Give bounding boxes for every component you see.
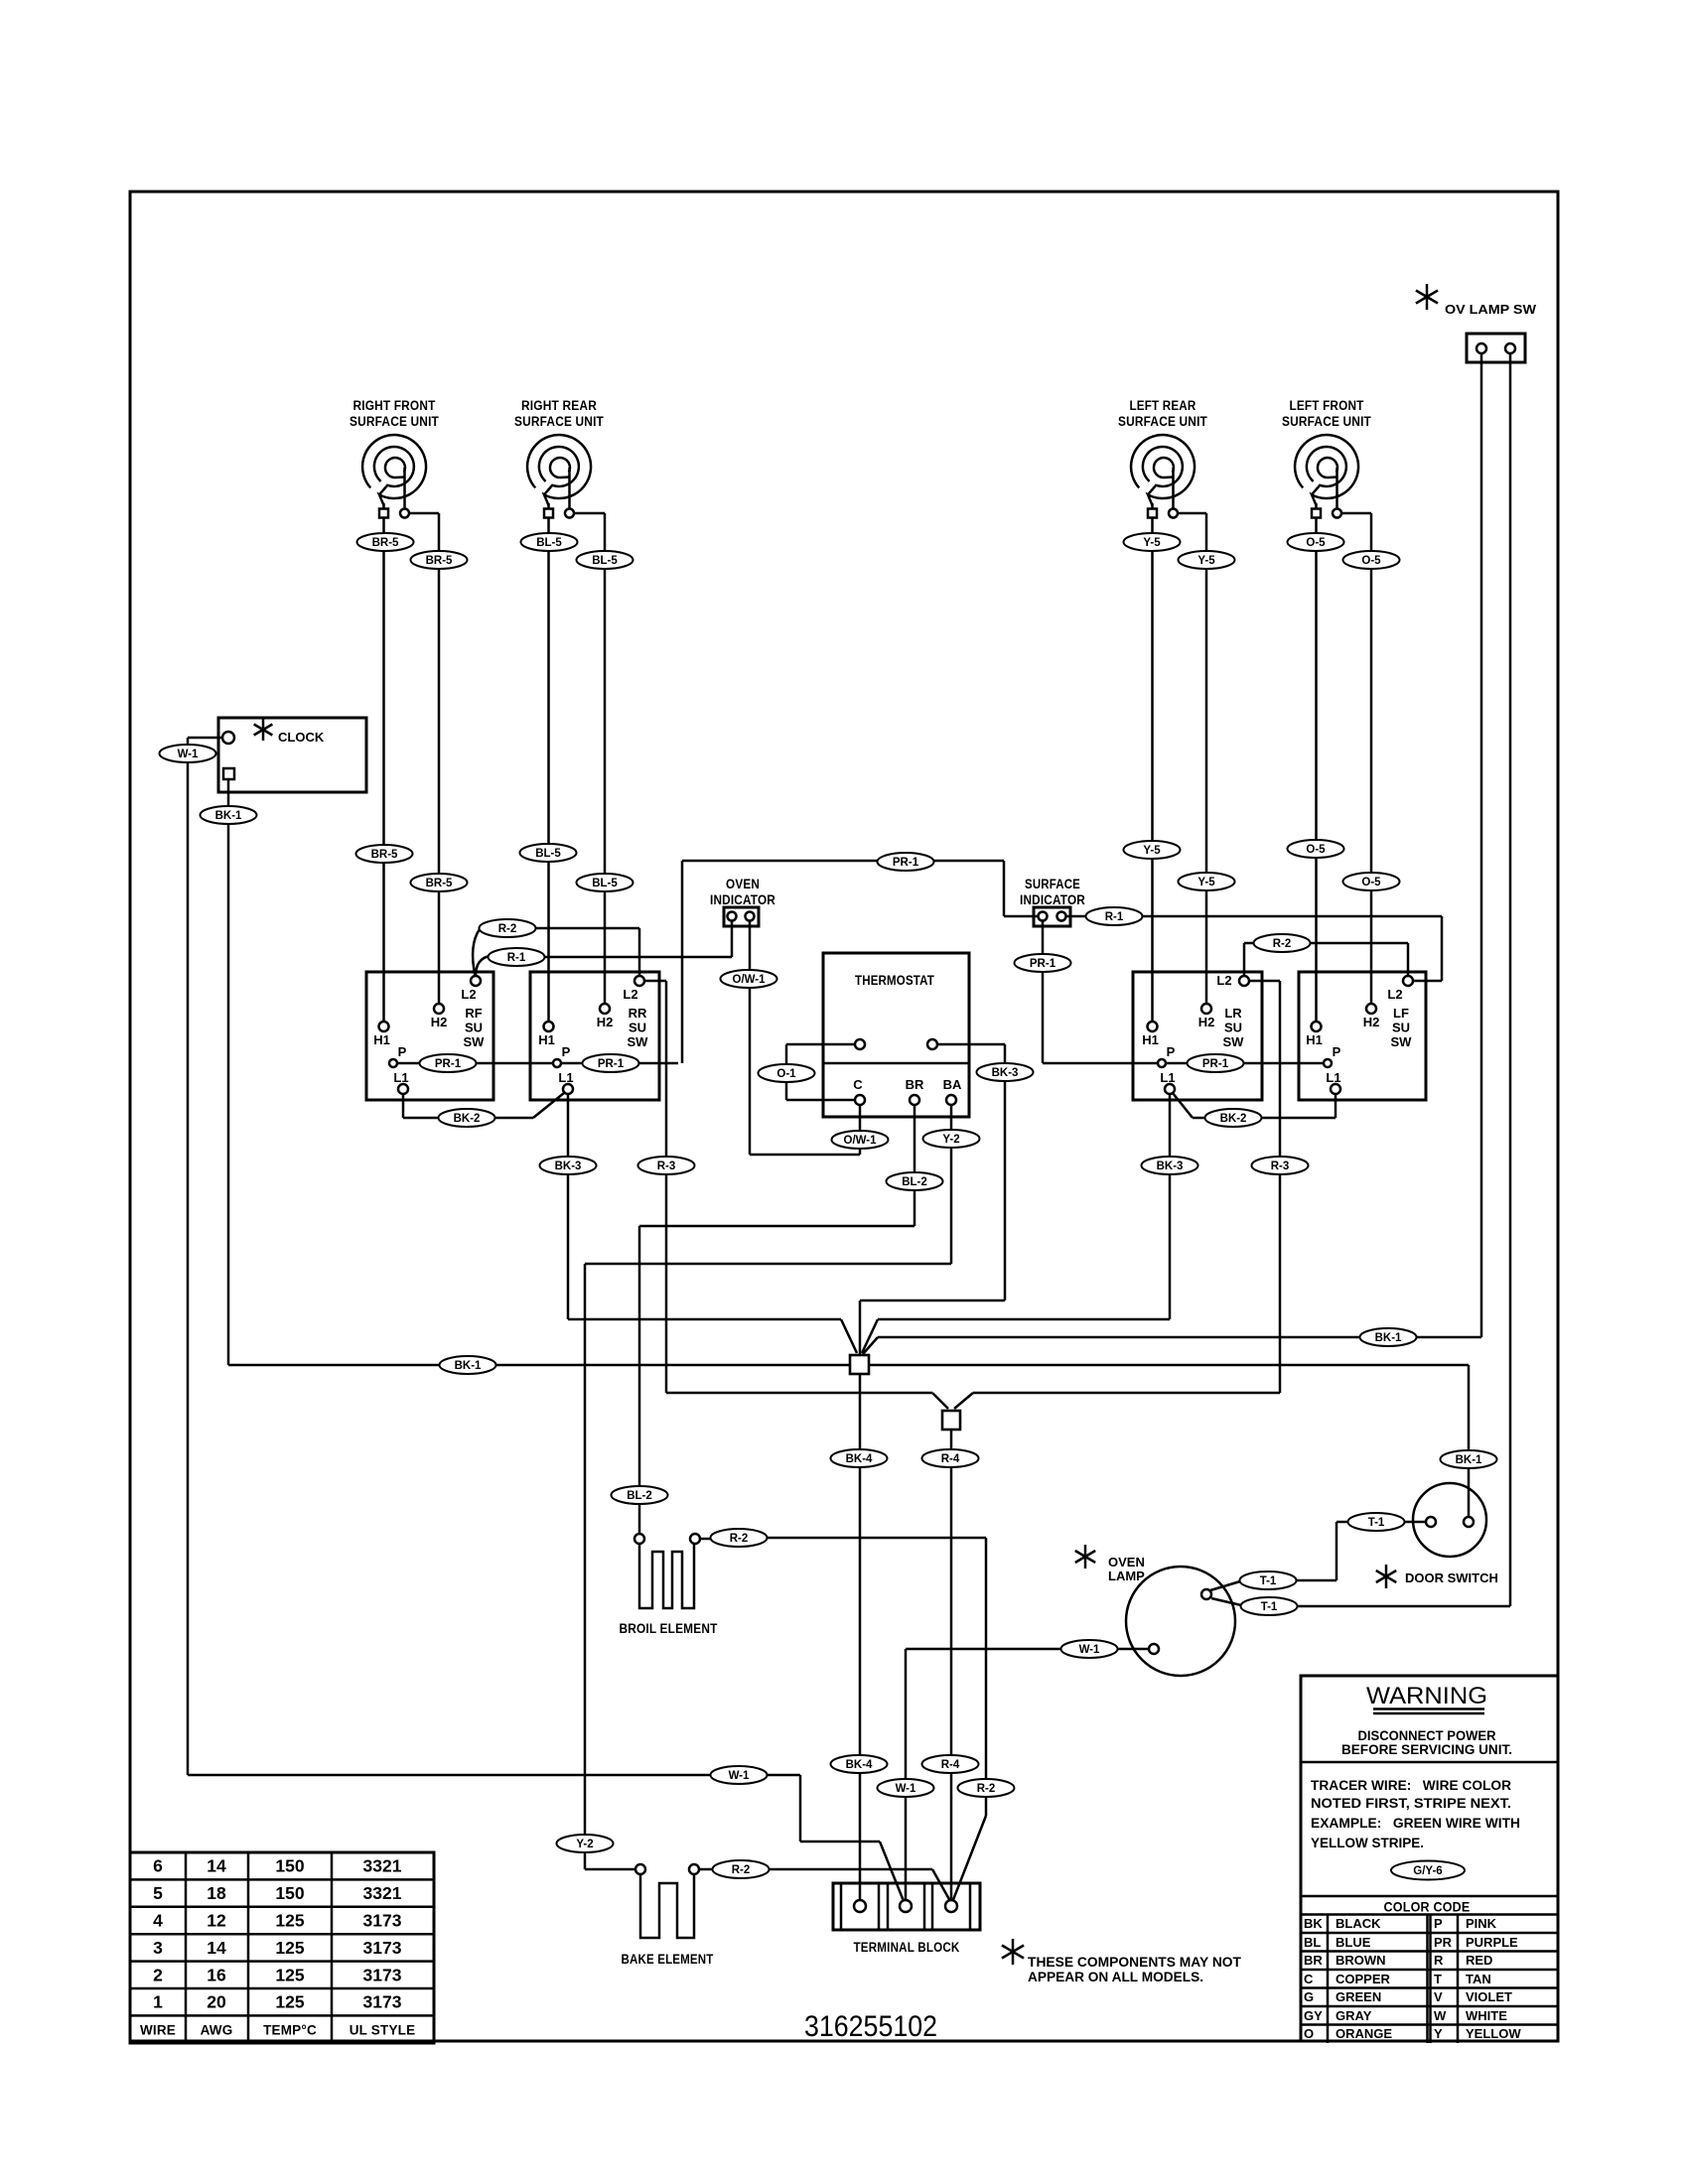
wire label W-1 <box>1061 1640 1118 1658</box>
svg-text:P: P <box>1167 1044 1176 1059</box>
svg-text:BR-5: BR-5 <box>426 555 453 567</box>
svg-text:GY: GY <box>1304 2008 1323 2023</box>
svg-text:4: 4 <box>153 1911 163 1931</box>
svg-text:Y-2: Y-2 <box>942 1134 959 1146</box>
svg-text:18: 18 <box>207 1883 226 1903</box>
pin labels RF box <box>373 987 485 1085</box>
clock <box>218 718 366 792</box>
wire R-2 (L2 LR to L2 LF) <box>1244 943 1408 976</box>
wire BK-2 (L1 RF to L1 RR) <box>403 1093 564 1118</box>
wire label BK-1 <box>1360 1328 1417 1346</box>
svg-text:SW: SW <box>1391 1034 1413 1049</box>
pin labels LF box <box>1306 987 1412 1085</box>
wire label R-4 <box>922 1449 979 1467</box>
svg-text:PURPLE: PURPLE <box>1466 1935 1518 1950</box>
svg-text:LEFT FRONT: LEFT FRONT <box>1290 398 1364 413</box>
svg-text:Y: Y <box>1434 2026 1443 2041</box>
wire label Y-5 <box>1179 551 1235 569</box>
svg-text:R-2: R-2 <box>1273 938 1292 950</box>
wire BK-1 (OV LAMP SW left to junction) <box>863 353 1481 1354</box>
svg-text:C: C <box>853 1077 863 1092</box>
svg-text:T-1: T-1 <box>1260 1575 1277 1587</box>
oven lamp switch (OV LAMP SW) <box>1416 284 1537 362</box>
svg-text:SURFACE UNIT: SURFACE UNIT <box>1118 414 1207 429</box>
svg-text:O: O <box>1304 2026 1314 2041</box>
wire BR-5 (RF unit H2 lead) <box>409 513 440 1004</box>
wire O-5 (LF unit H2 lead) <box>1341 513 1372 1004</box>
wire label BL-5 <box>521 533 578 551</box>
wire R-2 (broil element to terminal block) <box>700 1538 986 1901</box>
wire label O-5 <box>1343 551 1400 569</box>
wire label O/W-1 <box>832 1131 889 1149</box>
svg-text:BL: BL <box>1304 1935 1321 1950</box>
wire W-1 (clock to terminal block) <box>188 738 904 1901</box>
svg-text:3173: 3173 <box>363 1938 402 1958</box>
svg-text:WARNING: WARNING <box>1366 1683 1487 1709</box>
svg-text:Y-5: Y-5 <box>1197 877 1215 888</box>
junction block 1 <box>850 1355 869 1374</box>
svg-text:WIRE: WIRE <box>140 2023 176 2038</box>
svg-text:G/Y-6: G/Y-6 <box>1413 1865 1442 1877</box>
svg-text:316255102: 316255102 <box>804 2010 937 2043</box>
svg-text:Y-5: Y-5 <box>1143 845 1161 857</box>
svg-text:BL-5: BL-5 <box>592 878 618 889</box>
wire gauge table <box>130 1852 434 2043</box>
svg-text:YELLOW: YELLOW <box>1466 2026 1521 2041</box>
wire label Y-5 <box>1124 533 1181 551</box>
svg-text:PINK: PINK <box>1466 1916 1497 1931</box>
wire R-3 (L2 LR to junction 2) <box>954 981 1280 1409</box>
svg-text:BK-3: BK-3 <box>1157 1160 1184 1172</box>
wire BR-5 (RF unit H1 lead) <box>382 518 385 1023</box>
svg-text:O/W-1: O/W-1 <box>733 974 767 986</box>
wire label R-3 <box>638 1157 695 1174</box>
svg-text:COLOR CODE: COLOR CODE <box>1384 1900 1471 1915</box>
pin labels LR box <box>1142 973 1244 1085</box>
wire R-4 (junction 2 to terminal block) <box>950 1430 953 1900</box>
wire label PR-1 <box>878 853 934 871</box>
svg-text:H2: H2 <box>1363 1015 1380 1029</box>
wire label BK-3 <box>540 1157 597 1174</box>
wire label BR-5 <box>411 551 468 569</box>
wire BK-3 (thermostat upper-right to junction) <box>860 1044 1005 1355</box>
svg-text:THESE COMPONENTS MAY NOT: THESE COMPONENTS MAY NOT <box>1028 1955 1242 1970</box>
wire label W-1 <box>711 1766 768 1784</box>
svg-text:BR: BR <box>906 1077 924 1092</box>
part number 316255102 <box>804 2010 937 2043</box>
svg-text:T-1: T-1 <box>1368 1517 1385 1529</box>
svg-text:PR: PR <box>1434 1935 1453 1950</box>
svg-text:R-1: R-1 <box>1105 911 1124 923</box>
svg-text:THERMOSTAT: THERMOSTAT <box>855 973 934 988</box>
svg-text:YELLOW STRIPE.: YELLOW STRIPE. <box>1311 1836 1424 1850</box>
svg-text:O-1: O-1 <box>776 1068 796 1080</box>
color code table <box>1301 1896 1558 2043</box>
switch LF SU SW <box>1299 972 1426 1100</box>
svg-text:T-1: T-1 <box>1261 1601 1278 1613</box>
svg-text:3173: 3173 <box>363 1992 402 2012</box>
svg-text:BK: BK <box>1304 1916 1323 1931</box>
wire label R-1 <box>1086 907 1143 925</box>
wire Y-5 (LR unit H1 lead) <box>1151 518 1154 1023</box>
svg-text:3: 3 <box>153 1938 163 1958</box>
svg-text:H2: H2 <box>597 1015 614 1029</box>
svg-text:BK-3: BK-3 <box>555 1160 582 1172</box>
svg-text:LF: LF <box>1393 1006 1409 1021</box>
svg-text:R-2: R-2 <box>730 1533 749 1545</box>
svg-text:BK-3: BK-3 <box>992 1067 1019 1079</box>
wire O-1 (thermostat upper-left to C) <box>786 1044 855 1100</box>
svg-text:P: P <box>1434 1916 1443 1931</box>
svg-text:GRAY: GRAY <box>1336 2008 1372 2023</box>
wire label PR-1 <box>583 1054 639 1072</box>
svg-text:SU: SU <box>465 1021 483 1035</box>
switch RR SU SW <box>530 972 659 1100</box>
wire BL-5 (RR unit H1 lead) <box>547 518 550 1023</box>
svg-text:TAN: TAN <box>1466 1972 1491 1986</box>
svg-text:PR-1: PR-1 <box>893 857 919 869</box>
wire label BK-4 <box>831 1755 888 1773</box>
junction block 2 <box>942 1411 960 1430</box>
svg-text:INDICATOR: INDICATOR <box>1020 892 1085 907</box>
svg-text:OV LAMP SW: OV LAMP SW <box>1445 302 1537 317</box>
wire O/W-1 (oven indicator to thermostat C) <box>750 921 860 1156</box>
wire label Y-5 <box>1124 841 1181 859</box>
svg-text:L2: L2 <box>461 987 476 1002</box>
svg-text:1: 1 <box>153 1992 163 2012</box>
svg-text:14: 14 <box>207 1856 226 1876</box>
wire label BL-5 <box>520 844 577 862</box>
svg-text:SU: SU <box>1392 1021 1410 1035</box>
svg-text:SU: SU <box>1224 1021 1242 1035</box>
svg-text:R-3: R-3 <box>657 1160 676 1172</box>
svg-text:BK-2: BK-2 <box>1220 1113 1247 1125</box>
wire label W-1 <box>160 745 216 762</box>
svg-text:3321: 3321 <box>363 1856 402 1876</box>
svg-text:5: 5 <box>153 1883 163 1903</box>
svg-text:W-1: W-1 <box>178 749 199 760</box>
svg-text:125: 125 <box>275 1965 304 1984</box>
wire label PR-1 <box>1188 1054 1244 1072</box>
svg-text:Y-2: Y-2 <box>576 1839 593 1850</box>
svg-text:LR: LR <box>1224 1006 1242 1021</box>
svg-text:R: R <box>1434 1953 1444 1968</box>
switch RF SU SW <box>366 972 493 1100</box>
wire BK-1 (clock to door switch) <box>228 780 1469 1517</box>
svg-text:BL-5: BL-5 <box>535 848 561 860</box>
wire label W-1 <box>878 1779 934 1797</box>
svg-text:APPEAR ON ALL MODELS.: APPEAR ON ALL MODELS. <box>1028 1970 1203 1984</box>
svg-text:R-2: R-2 <box>498 923 517 935</box>
wire label BR-5 <box>411 874 468 891</box>
svg-text:W-1: W-1 <box>1079 1644 1100 1656</box>
svg-text:INDICATOR: INDICATOR <box>710 892 775 907</box>
svg-text:R-2: R-2 <box>977 1783 996 1795</box>
wire label R-2 <box>711 1529 768 1547</box>
wire label BK-1 <box>440 1356 496 1374</box>
wire label BK-2 <box>439 1109 495 1127</box>
svg-text:125: 125 <box>275 1992 304 2012</box>
svg-text:BL-2: BL-2 <box>902 1176 927 1188</box>
surface unit coil LR <box>1118 398 1207 518</box>
wire label R-2 <box>958 1779 1015 1797</box>
wire label Y-2 <box>923 1130 980 1148</box>
svg-text:SW: SW <box>1223 1034 1245 1049</box>
svg-text:H1: H1 <box>538 1032 555 1047</box>
svg-text:BR-5: BR-5 <box>371 849 398 861</box>
svg-text:150: 150 <box>275 1856 304 1876</box>
wire label BL-2 <box>887 1172 943 1190</box>
svg-text:BL-2: BL-2 <box>627 1490 652 1502</box>
svg-text:H1: H1 <box>1142 1032 1159 1047</box>
wire label Y-5 <box>1179 873 1235 890</box>
svg-text:L1: L1 <box>558 1070 573 1085</box>
svg-text:3173: 3173 <box>363 1965 402 1984</box>
svg-text:SURFACE UNIT: SURFACE UNIT <box>350 414 439 429</box>
wire R-1 (L2 RF to oven indicator) <box>476 921 732 977</box>
wire PR-1 (P RF / P RR / surface indicator) <box>397 861 1039 1063</box>
svg-text:BA: BA <box>943 1077 962 1092</box>
wire BK-2 (L1 LR to L1 LF) <box>1173 1093 1336 1118</box>
wire label BL-2 <box>612 1486 668 1504</box>
svg-text:RIGHT FRONT: RIGHT FRONT <box>353 398 436 413</box>
svg-text:Y-5: Y-5 <box>1143 537 1161 549</box>
wire W-1 (terminal block to oven lamp) <box>906 1649 1149 1900</box>
wire BK-3 (L1 LR to junction) <box>862 1094 1170 1353</box>
svg-text:TRACER WIRE: WIRE COLOR: TRACER WIRE: WIRE COLOR <box>1311 1778 1511 1793</box>
pin labels RR box <box>538 987 648 1085</box>
broil element <box>620 1534 718 1636</box>
wire label BK-3 <box>977 1063 1034 1081</box>
svg-text:BK-1: BK-1 <box>1375 1332 1402 1344</box>
svg-text:ORANGE: ORANGE <box>1336 2026 1392 2041</box>
svg-text:R-2: R-2 <box>732 1864 751 1876</box>
wire Y-5 (LR unit H2 lead) <box>1178 513 1207 1004</box>
wire BK-3 (L1 RR to junction) <box>568 1094 857 1353</box>
wire label BK-2 <box>1205 1109 1262 1127</box>
svg-text:P: P <box>1333 1044 1341 1059</box>
surface unit coil RF <box>350 398 439 518</box>
svg-text:BL-5: BL-5 <box>536 537 562 549</box>
svg-text:P: P <box>398 1044 407 1059</box>
switch LR SU SW <box>1133 972 1262 1100</box>
svg-text:R-1: R-1 <box>507 952 526 964</box>
svg-text:BR: BR <box>1304 1953 1323 1968</box>
svg-text:W-1: W-1 <box>729 1770 750 1782</box>
svg-text:RR: RR <box>629 1006 647 1021</box>
svg-text:V: V <box>1434 1989 1443 2004</box>
svg-text:RED: RED <box>1466 1953 1492 1968</box>
svg-text:PR-1: PR-1 <box>1030 958 1056 970</box>
svg-text:TERMINAL BLOCK: TERMINAL BLOCK <box>854 1940 960 1955</box>
svg-text:L2: L2 <box>623 987 637 1002</box>
svg-text:L1: L1 <box>393 1070 408 1085</box>
bake element <box>622 1864 714 1967</box>
thermostat <box>823 953 969 1117</box>
svg-text:3173: 3173 <box>363 1911 402 1931</box>
svg-text:BROIL ELEMENT: BROIL ELEMENT <box>620 1621 718 1636</box>
svg-text:R-3: R-3 <box>1271 1160 1290 1172</box>
surface unit coil LF <box>1282 398 1371 518</box>
wire label BL-5 <box>577 874 633 891</box>
svg-text:20: 20 <box>207 1992 226 2012</box>
svg-text:WHITE: WHITE <box>1466 2008 1507 2023</box>
svg-text:R-4: R-4 <box>941 1759 960 1771</box>
svg-text:H1: H1 <box>1306 1032 1323 1047</box>
wire label BR-5 <box>356 845 413 863</box>
svg-text:BR-5: BR-5 <box>372 537 399 549</box>
wire label O-5 <box>1288 533 1344 551</box>
svg-text:GREEN: GREEN <box>1336 1989 1381 2004</box>
svg-text:TEMP°C: TEMP°C <box>263 2023 317 2038</box>
wire label R-1 <box>489 948 545 966</box>
wire BK-4 (junction to terminal block) <box>859 1374 862 1900</box>
wire label BL-5 <box>577 551 633 569</box>
svg-text:T: T <box>1434 1972 1442 1986</box>
wire R-2 (bake element to terminal block) <box>699 1869 950 1901</box>
wire label O-1 <box>759 1064 815 1082</box>
wire R-3 (L2 RR to junction 2) <box>644 981 948 1409</box>
wire label BK-3 <box>1142 1157 1198 1174</box>
wire label BK-1 <box>201 806 257 824</box>
svg-text:SURFACE UNIT: SURFACE UNIT <box>514 414 604 429</box>
svg-text:3321: 3321 <box>363 1883 402 1903</box>
surface unit coil RR <box>514 398 604 518</box>
svg-text:BL-5: BL-5 <box>592 555 618 567</box>
svg-text:OVEN: OVEN <box>1108 1555 1145 1570</box>
svg-text:OVEN: OVEN <box>726 877 760 891</box>
svg-text:EXAMPLE: GREEN WIRE WITH: EXAMPLE: GREEN WIRE WITH <box>1311 1816 1520 1831</box>
svg-text:BK-4: BK-4 <box>846 1453 873 1465</box>
svg-text:R-4: R-4 <box>941 1453 960 1465</box>
wire label PR-1 <box>420 1054 477 1072</box>
svg-text:BK-1: BK-1 <box>1456 1454 1482 1466</box>
wire label O/W-1 <box>721 970 777 988</box>
svg-text:SU: SU <box>629 1021 646 1035</box>
wire label R-4 <box>922 1755 979 1773</box>
svg-text:O-5: O-5 <box>1361 877 1381 888</box>
svg-text:W: W <box>1434 2008 1447 2023</box>
svg-text:SURFACE: SURFACE <box>1025 877 1080 891</box>
wire label PR-1 <box>1015 954 1071 972</box>
svg-text:O-5: O-5 <box>1306 844 1326 856</box>
oven indicator <box>710 877 775 926</box>
border frame <box>130 192 1558 2041</box>
svg-text:BR-5: BR-5 <box>426 878 453 889</box>
wire label BK-4 <box>831 1449 888 1467</box>
svg-text:W-1: W-1 <box>896 1783 916 1795</box>
wire label T-1 <box>1348 1513 1405 1531</box>
wire R-2 (L2 RF to L2 RR) <box>473 928 639 976</box>
svg-text:16: 16 <box>207 1965 226 1984</box>
wire PR-1 (surface indicator to P LR / P LF) <box>1043 921 1324 1064</box>
wire label R-2 <box>713 1860 770 1878</box>
wire T-1 (oven lamp to door switch) <box>1210 1522 1426 1590</box>
svg-text:CLOCK: CLOCK <box>278 730 325 745</box>
note: components may not appear <box>1002 1939 1242 1984</box>
svg-text:L2: L2 <box>1387 987 1402 1002</box>
svg-text:PR-1: PR-1 <box>1202 1058 1229 1070</box>
svg-text:DOOR SWITCH: DOOR SWITCH <box>1405 1570 1498 1585</box>
svg-text:SURFACE UNIT: SURFACE UNIT <box>1282 414 1371 429</box>
wire label T-1 <box>1241 1597 1298 1615</box>
svg-text:H2: H2 <box>431 1015 448 1029</box>
svg-text:COPPER: COPPER <box>1336 1972 1391 1986</box>
wire label O-5 <box>1343 873 1400 890</box>
wire BL-2 (thermostat BR to broil element) <box>639 1105 914 1534</box>
svg-text:H2: H2 <box>1198 1015 1215 1029</box>
wire label G/Y-6 <box>1391 1861 1465 1880</box>
svg-text:BK-2: BK-2 <box>454 1113 481 1125</box>
svg-text:150: 150 <box>275 1883 304 1903</box>
svg-text:SW: SW <box>464 1034 486 1049</box>
wire label Y-2 <box>557 1835 614 1852</box>
wire label R-2 <box>1254 934 1311 952</box>
svg-text:O/W-1: O/W-1 <box>844 1135 878 1147</box>
svg-text:BK-4: BK-4 <box>846 1759 873 1771</box>
oven lamp <box>1075 1545 1235 1676</box>
svg-text:O-5: O-5 <box>1361 555 1381 567</box>
svg-text:Y-5: Y-5 <box>1197 555 1215 567</box>
svg-text:BLUE: BLUE <box>1336 1935 1371 1950</box>
svg-text:2: 2 <box>153 1965 163 1984</box>
svg-text:UL STYLE: UL STYLE <box>350 2023 416 2038</box>
svg-text:L1: L1 <box>1326 1070 1340 1085</box>
svg-text:BK-1: BK-1 <box>455 1360 482 1372</box>
svg-text:PR-1: PR-1 <box>598 1058 625 1070</box>
svg-text:G: G <box>1304 1989 1314 2004</box>
svg-text:AWG: AWG <box>201 2023 233 2038</box>
svg-text:SW: SW <box>628 1034 649 1049</box>
svg-text:NOTED FIRST, STRIPE NEXT.: NOTED FIRST, STRIPE NEXT. <box>1311 1796 1511 1811</box>
svg-text:6: 6 <box>153 1856 163 1876</box>
svg-text:L2: L2 <box>1216 973 1231 988</box>
wire Y-2 (thermostat BA to bake element) <box>585 1105 951 1869</box>
wire label O-5 <box>1288 840 1344 858</box>
wire R-1 (surface indicator to L2 LF) <box>1066 916 1443 981</box>
svg-text:RF: RF <box>465 1006 482 1021</box>
wire label T-1 <box>1240 1571 1297 1589</box>
svg-text:BAKE ELEMENT: BAKE ELEMENT <box>622 1952 714 1967</box>
svg-text:125: 125 <box>275 1938 304 1958</box>
svg-text:L1: L1 <box>1160 1070 1175 1085</box>
wire label R-2 <box>480 919 536 937</box>
wire label BK-1 <box>1441 1450 1497 1468</box>
svg-text:BK-1: BK-1 <box>215 810 242 822</box>
svg-text:PR-1: PR-1 <box>435 1058 462 1070</box>
terminal block <box>833 1883 980 1955</box>
svg-text:BROWN: BROWN <box>1336 1953 1386 1968</box>
wire T-1 (oven lamp to OV LAMP SW right) <box>1211 353 1510 1606</box>
svg-text:P: P <box>562 1044 571 1059</box>
surface indicator <box>1020 877 1085 926</box>
svg-text:BEFORE SERVICING UNIT.: BEFORE SERVICING UNIT. <box>1341 1742 1512 1757</box>
wire label BR-5 <box>357 533 414 551</box>
svg-text:H1: H1 <box>373 1032 390 1047</box>
svg-text:RIGHT REAR: RIGHT REAR <box>521 398 597 413</box>
svg-text:LEFT REAR: LEFT REAR <box>1130 398 1196 413</box>
svg-text:14: 14 <box>207 1938 226 1958</box>
svg-text:C: C <box>1304 1972 1314 1986</box>
svg-text:DISCONNECT POWER: DISCONNECT POWER <box>1358 1728 1496 1743</box>
svg-text:O-5: O-5 <box>1306 537 1326 549</box>
svg-text:VIOLET: VIOLET <box>1466 1989 1512 2004</box>
svg-text:125: 125 <box>275 1911 304 1931</box>
svg-text:12: 12 <box>207 1911 226 1931</box>
warning box <box>1301 1676 1558 2041</box>
wire BL-5 (RR unit H2 lead) <box>574 513 606 1004</box>
door switch <box>1376 1483 1498 1588</box>
